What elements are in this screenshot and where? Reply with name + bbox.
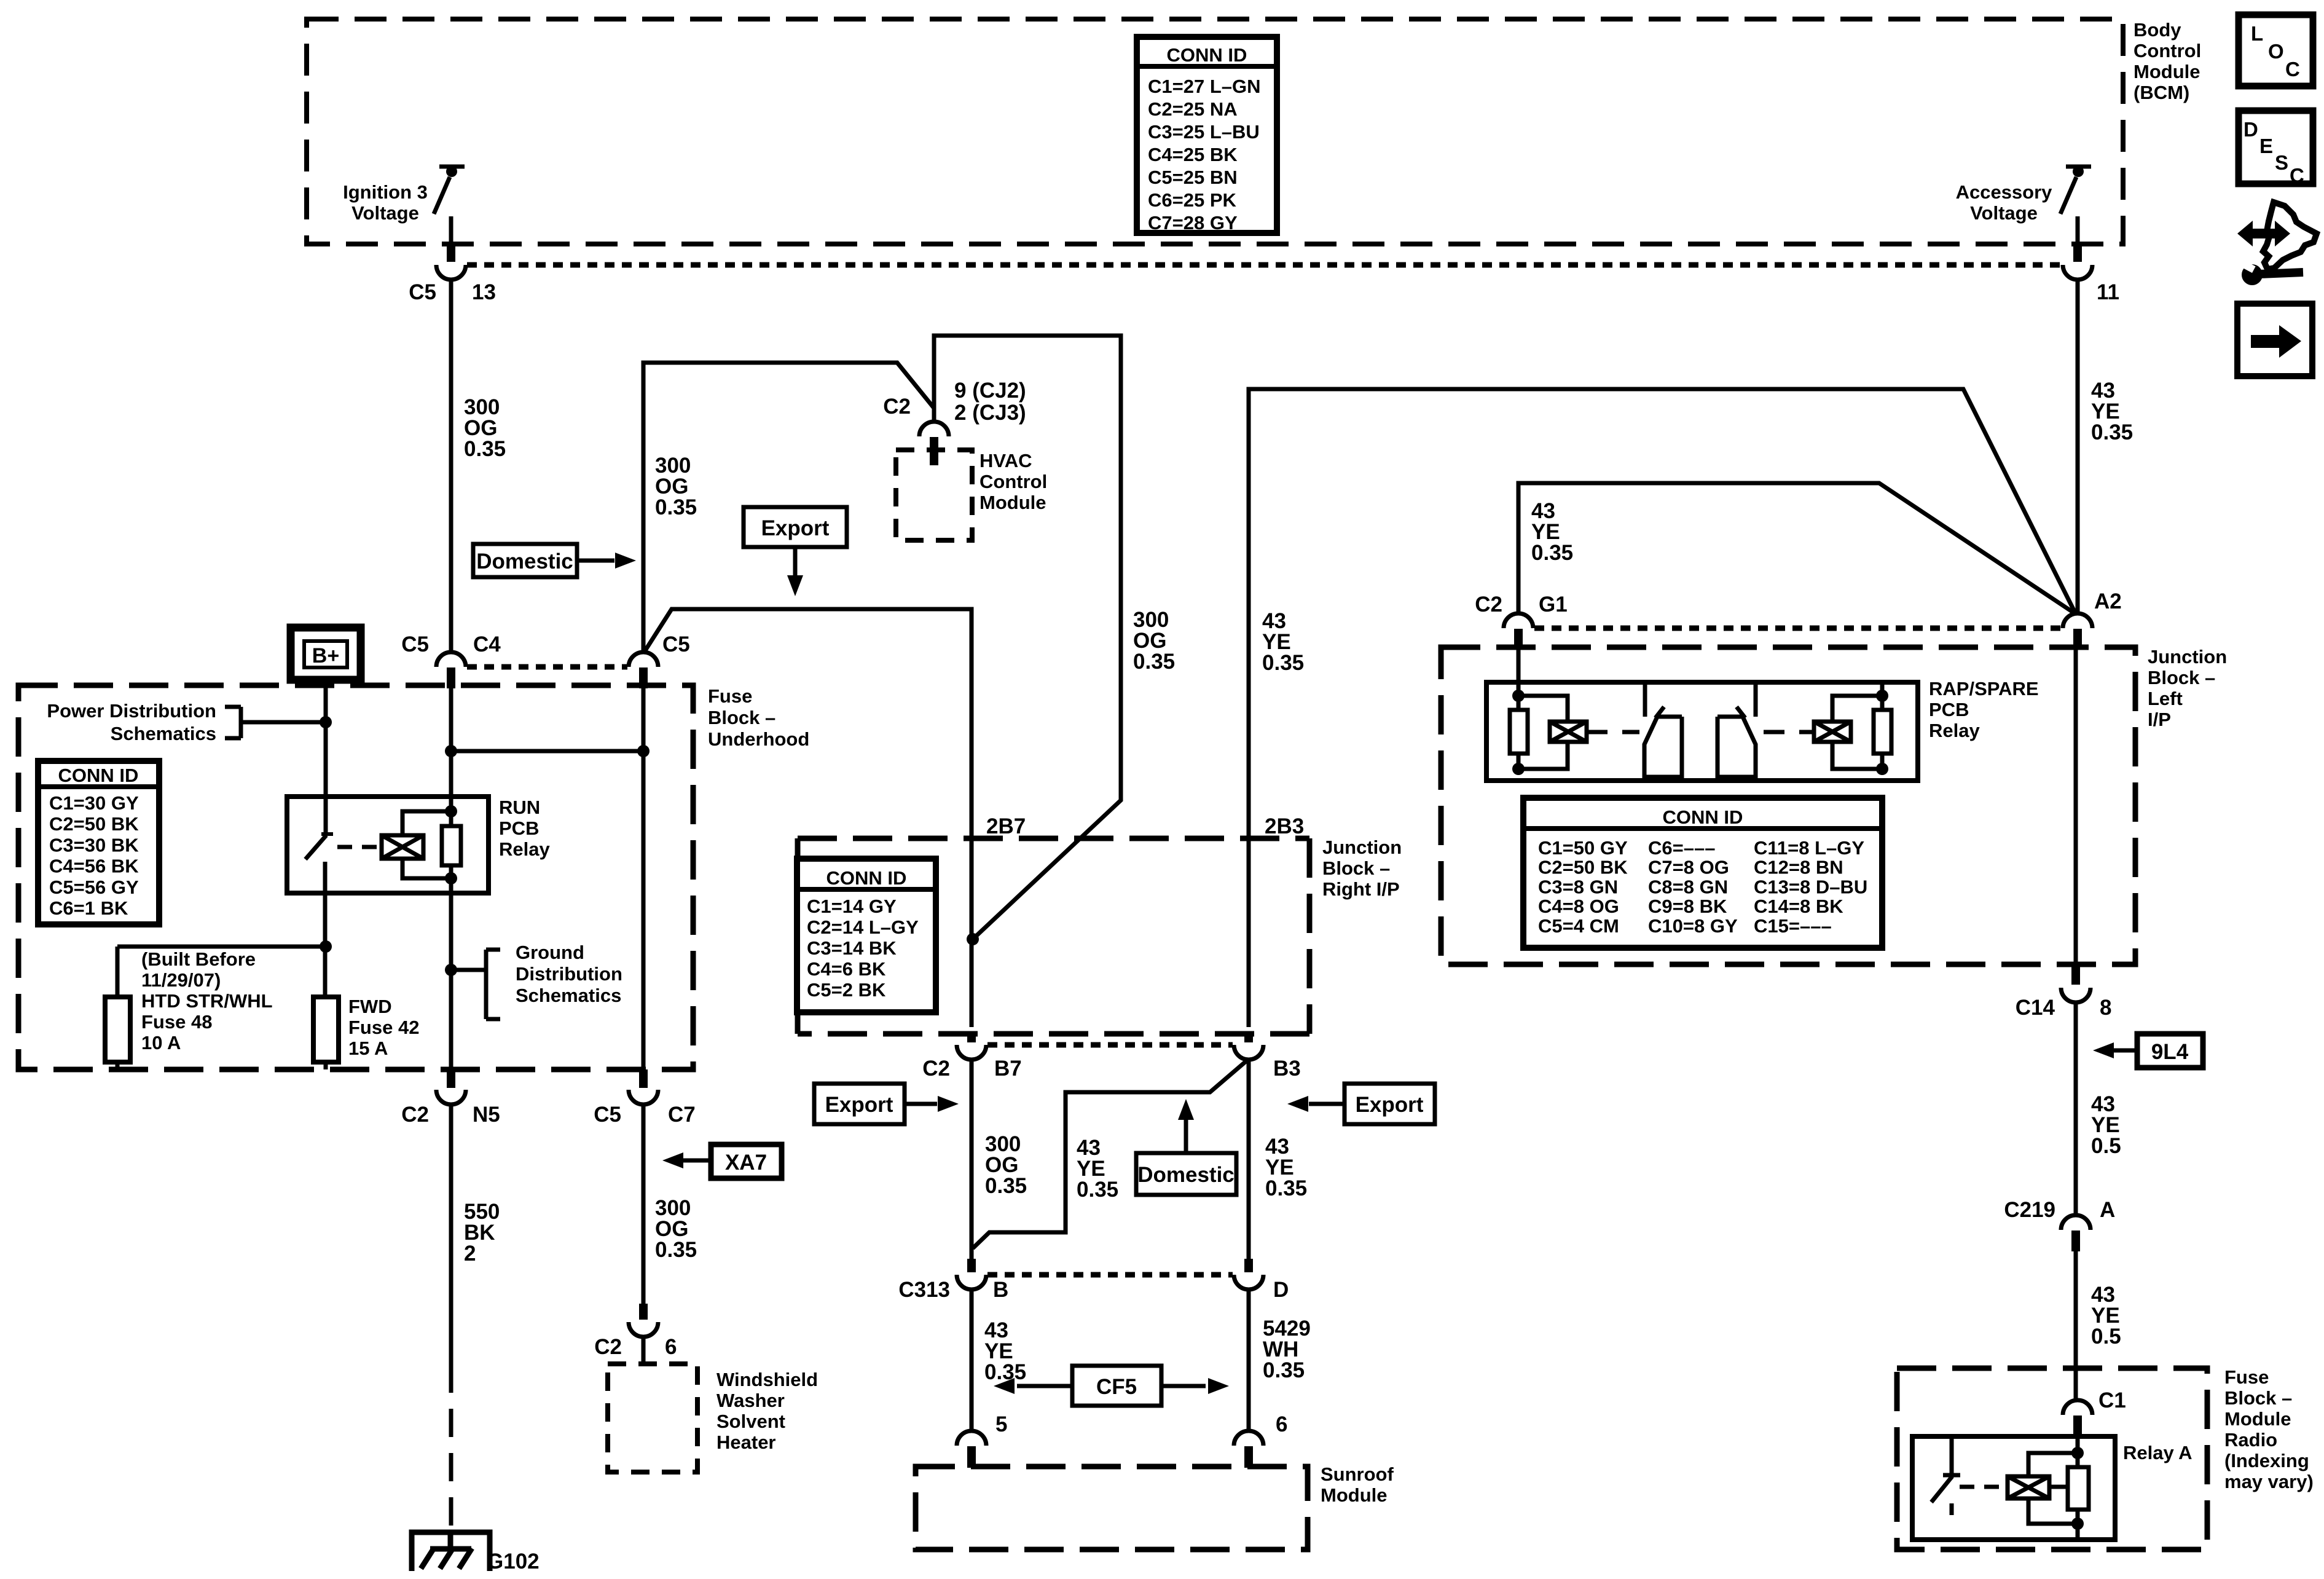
svg-text:Domestic: Domestic [1137, 1163, 1235, 1187]
svg-text:Fuse: Fuse [2224, 1366, 2269, 1388]
svg-text:8: 8 [2100, 996, 2111, 1020]
svg-text:5: 5 [995, 1412, 1007, 1436]
connector C2 (HVAC control module) 9 (CJ2) / 2 (CJ3) [919, 422, 949, 436]
RAP relay left coil [1550, 722, 1587, 742]
box label: B+ [291, 628, 361, 680]
module box: Junction Block - Right I/P (dashed) [798, 836, 1309, 841]
wire: 43 YE 0.5 to fuse block module radio [2074, 1251, 2078, 1401]
arrow box: CF5 (twisted pair) [1072, 1366, 1161, 1406]
RUN relay resistor [442, 826, 461, 865]
junction block right bottom connector row (dotted) [987, 1042, 1233, 1048]
svg-text:0.35: 0.35 [985, 1174, 1027, 1198]
svg-text:XA7: XA7 [725, 1151, 767, 1175]
svg-text:C5: C5 [409, 280, 436, 304]
svg-text:C13=8 D–BU: C13=8 D–BU [1754, 876, 1867, 897]
Relay A resistor [2068, 1467, 2089, 1510]
svg-text:Domestic: Domestic [476, 549, 573, 573]
svg-text:Module: Module [1321, 1484, 1388, 1506]
svg-text:C219: C219 [2004, 1198, 2055, 1222]
svg-text:D: D [1273, 1278, 1289, 1302]
svg-text:2: 2 [464, 1242, 476, 1266]
svg-text:C2=25 NA: C2=25 NA [1148, 98, 1238, 120]
svg-text:C4=8 OG: C4=8 OG [1538, 896, 1619, 917]
svg-text:Heater: Heater [716, 1431, 776, 1453]
junction block left CONN ID table [1523, 798, 1882, 948]
svg-text:C2=14 L–GY: C2=14 L–GY [807, 916, 919, 938]
svg-text:C5=2 BK: C5=2 BK [807, 979, 886, 1001]
svg-text:C6=–––: C6=––– [1648, 837, 1715, 859]
connector pin 5 (sunroof module) [957, 1431, 986, 1446]
svg-text:FWD: FWD [348, 996, 392, 1017]
svg-text:C7: C7 [668, 1103, 696, 1127]
ground symbol G102 [412, 1532, 490, 1571]
wire: relay output to C2-N5 [449, 865, 453, 1069]
svg-text:Sunroof: Sunroof [1321, 1463, 1394, 1485]
arrow: Domestic right [577, 559, 614, 563]
wire: C4 feed through fuse block [449, 688, 453, 826]
svg-text:11/29/07): 11/29/07) [141, 969, 221, 991]
svg-text:N5: N5 [473, 1103, 500, 1127]
svg-text:CONN ID: CONN ID [1167, 44, 1247, 66]
svg-text:Schematics: Schematics [516, 985, 621, 1006]
arrow: Domestic up [1184, 1119, 1188, 1153]
svg-text:0.5: 0.5 [2091, 1134, 2121, 1158]
module box: Fuse Block - Module Radio (dashed) [1897, 1368, 2207, 1549]
relay box: RUN PCB Relay [287, 797, 489, 893]
arrow: 9L4 to wire [2114, 1049, 2137, 1053]
svg-text:C1=30 GY: C1=30 GY [49, 792, 139, 814]
svg-text:C10=8 GY: C10=8 GY [1648, 915, 1738, 937]
svg-text:0.35: 0.35 [1077, 1178, 1118, 1202]
svg-text:Control: Control [979, 471, 1047, 492]
wire: accessory switch to pin 11 [2076, 216, 2080, 246]
RAP relay right contact [1754, 682, 1758, 717]
svg-text:Voltage: Voltage [1970, 202, 2038, 224]
svg-text:Accessory: Accessory [1956, 181, 2053, 203]
svg-text:C11=8 L–GY: C11=8 L–GY [1754, 837, 1864, 859]
svg-text:O: O [2268, 40, 2284, 63]
arrow: CF5 left [1017, 1384, 1072, 1388]
svg-text:CONN ID: CONN ID [1663, 806, 1743, 828]
connector C5 pin 13 (BCM) [447, 246, 455, 262]
RAP relay right resistor [1874, 710, 1891, 754]
svg-text:C9=8 BK: C9=8 BK [1648, 896, 1727, 917]
svg-text:Control: Control [2134, 40, 2201, 61]
wire: B7 continues to C313 B [970, 1059, 974, 1259]
RUN relay switch [321, 832, 333, 836]
svg-text:C6=25 PK: C6=25 PK [1148, 189, 1237, 211]
svg-text:HTD STR/WHL: HTD STR/WHL [141, 990, 273, 1012]
connector C219 pin A [2061, 1215, 2090, 1230]
connector pin 6 (sunroof module) [1234, 1431, 1263, 1446]
svg-text:(Indexing: (Indexing [2224, 1450, 2309, 1471]
svg-text:C4=25 BK: C4=25 BK [1148, 144, 1238, 165]
wire: 43 YE 0.35 to sunroof 5 [970, 1289, 974, 1431]
svg-text:C5=56 GY: C5=56 GY [49, 876, 139, 898]
svg-text:Left: Left [2148, 688, 2183, 709]
svg-text:(Built Before: (Built Before [141, 948, 256, 970]
svg-text:Windshield: Windshield [716, 1369, 818, 1390]
svg-text:C4=56 BK: C4=56 BK [49, 856, 139, 877]
BCM bottom connector row (dotted) [467, 262, 2062, 268]
connector C5 (fuse block, export riser) [629, 652, 658, 667]
wire: 5429 WH 0.35 to sunroof 6 [1247, 1289, 1251, 1431]
arrow box: 9L4 [2137, 1034, 2203, 1068]
svg-text:C6=1 BK: C6=1 BK [49, 897, 128, 919]
svg-text:C4=6 BK: C4=6 BK [807, 958, 886, 980]
box label: Domestic (to riser) [473, 544, 577, 577]
svg-text:Block –: Block – [708, 707, 775, 728]
svg-text:C12=8 BN: C12=8 BN [1754, 857, 1843, 878]
wire: B+ feed down [324, 680, 328, 834]
connector C313 pin B [967, 1259, 976, 1272]
svg-text:Right I/P: Right I/P [1322, 878, 1400, 900]
svg-text:C5: C5 [401, 632, 429, 656]
svg-text:C: C [2285, 58, 2300, 81]
svg-text:C1=27 L–GN: C1=27 L–GN [1148, 76, 1261, 97]
svg-text:C5=25 BN: C5=25 BN [1148, 167, 1238, 188]
svg-text:PCB: PCB [1929, 699, 1969, 720]
svg-text:Block –: Block – [2148, 667, 2215, 688]
wire: branch to HTD STR/WHL fuse [117, 945, 326, 949]
RAP relay left coil loop [1518, 696, 1568, 722]
switch: Accessory Voltage (inside BCM) [2066, 165, 2091, 169]
svg-text:9L4: 9L4 [2151, 1040, 2189, 1064]
junction block right CONN ID table [797, 859, 936, 1012]
connector C2 pin N5 (fuse block bottom) [447, 1069, 455, 1088]
svg-text:9 (CJ2): 9 (CJ2) [954, 379, 1026, 403]
wire: G1 riser and run to A2 [1518, 483, 2076, 614]
junction on B7 wire [967, 933, 979, 945]
wire: ignition switch to C5 pin 13 [449, 216, 453, 246]
C313 connector row (dotted) [987, 1272, 1233, 1278]
svg-text:Radio: Radio [2224, 1429, 2277, 1451]
svg-text:B3: B3 [1273, 1057, 1301, 1081]
module box: Windshield Washer Solvent Heater (dashed) [608, 1364, 697, 1472]
relay box: RAP/SPARE PCB Relay [1486, 682, 1918, 781]
arrow: Export right [905, 1102, 937, 1106]
svg-text:0.5: 0.5 [2091, 1325, 2121, 1349]
connector C2 pin B7 [967, 1034, 976, 1042]
svg-text:10 A: 10 A [141, 1032, 181, 1053]
svg-text:Solvent: Solvent [716, 1411, 785, 1432]
icon: right-arrow box [2237, 304, 2312, 376]
svg-text:Module: Module [2224, 1408, 2291, 1430]
svg-text:11: 11 [2097, 280, 2119, 304]
svg-text:I/P: I/P [2148, 709, 2171, 730]
svg-text:C14=8 BK: C14=8 BK [1754, 896, 1843, 917]
svg-text:C3=14 BK: C3=14 BK [807, 937, 897, 959]
wire: 43 YE 0.35 from pin 11 down to A2 [2076, 279, 2080, 614]
connector C2 pin G1 [1504, 613, 1533, 628]
wire: domestic riser from fuse block C5 up, over to HVAC C2 [643, 363, 934, 653]
svg-text:Junction: Junction [1322, 837, 1402, 858]
svg-text:C4: C4 [473, 632, 501, 656]
wire: dashed segment to G102 [449, 1364, 453, 1535]
svg-text:0.35: 0.35 [1262, 651, 1304, 675]
wire: 43 YE 0.35 2B3 drop and run to A2 [1249, 389, 2076, 1027]
svg-text:C5: C5 [594, 1103, 621, 1127]
svg-text:Export: Export [1356, 1093, 1424, 1117]
svg-text:15 A: 15 A [348, 1038, 388, 1059]
svg-text:G102: G102 [487, 1549, 540, 1573]
arrow box: Export (B3) [1345, 1084, 1435, 1124]
svg-text:C5: C5 [662, 632, 690, 656]
svg-text:Junction: Junction [2148, 646, 2227, 667]
relay box: Relay A [1912, 1436, 2115, 1540]
svg-text:Washer: Washer [716, 1390, 785, 1411]
RAP relay left contact [1643, 682, 1647, 717]
svg-text:C1: C1 [2098, 1388, 2126, 1412]
svg-text:0.35: 0.35 [2091, 420, 2133, 444]
svg-text:Relay A: Relay A [2123, 1442, 2192, 1463]
svg-text:C2=50 BK: C2=50 BK [1538, 857, 1628, 878]
RAP relay right coil loop [1832, 696, 1882, 722]
wire: 300 OG 0.35 from C5-13 down to fuse block C4 [449, 279, 453, 653]
wire: B3 domestic jog to B wire [973, 1059, 1249, 1248]
RUN relay coil loop [402, 811, 451, 835]
wire: 43 YE 0.5 to C219 [2074, 1002, 2078, 1216]
arrow box: XA7 [711, 1144, 782, 1178]
svg-text:Block –: Block – [2224, 1387, 2292, 1409]
svg-text:0.35: 0.35 [1265, 1176, 1307, 1200]
svg-text:CONN ID: CONN ID [58, 765, 139, 786]
svg-text:2B3: 2B3 [1265, 814, 1304, 838]
svg-text:may vary): may vary) [2224, 1471, 2314, 1492]
svg-text:A: A [2100, 1198, 2115, 1222]
svg-text:Block –: Block – [1322, 857, 1390, 879]
icon: DESC box [2239, 111, 2313, 184]
connector C5/C4 (fuse block) [436, 652, 466, 667]
svg-text:6: 6 [665, 1335, 677, 1359]
svg-text:B+: B+ [312, 644, 339, 667]
connector pin B3 [1244, 1034, 1253, 1042]
arrow: Export left [1309, 1102, 1345, 1106]
svg-text:C3=8 GN: C3=8 GN [1538, 876, 1618, 897]
svg-text:CF5: CF5 [1096, 1375, 1137, 1399]
svg-text:Fuse 42: Fuse 42 [348, 1017, 419, 1038]
svg-text:Underhood: Underhood [708, 728, 809, 750]
connector pin 11 (BCM) [2073, 246, 2082, 262]
fuse: FWD Fuse 42 15 A [313, 997, 339, 1062]
svg-text:C7=28 GY: C7=28 GY [1148, 212, 1238, 234]
svg-text:Schematics: Schematics [111, 723, 216, 744]
svg-text:C2: C2 [883, 395, 911, 419]
svg-text:Module: Module [979, 492, 1046, 513]
svg-text:C5=4 CM: C5=4 CM [1538, 915, 1619, 937]
svg-text:G1: G1 [1539, 593, 1568, 616]
svg-text:B7: B7 [994, 1057, 1022, 1081]
svg-text:L: L [2251, 22, 2263, 45]
svg-text:0.35: 0.35 [1133, 650, 1175, 674]
svg-text:C1=14 GY: C1=14 GY [807, 896, 897, 917]
svg-text:0.35: 0.35 [655, 495, 697, 519]
fuse block CONN ID table [38, 761, 159, 924]
wire: B3 continues to C313 D [1247, 1059, 1251, 1259]
connector C14 pin 8 [2071, 964, 2080, 985]
Relay A coil [2008, 1476, 2049, 1498]
svg-text:Power Distribution: Power Distribution [47, 700, 216, 722]
svg-text:HVAC: HVAC [979, 450, 1032, 471]
svg-text:C1=50 GY: C1=50 GY [1538, 837, 1628, 859]
svg-text:Relay: Relay [499, 838, 550, 860]
svg-text:C15=–––: C15=––– [1754, 915, 1832, 937]
wire: 300 OG 0.35 down to washer heater connector [642, 1104, 646, 1304]
fuse block top connector row (dotted) [467, 664, 627, 670]
svg-text:2 (CJ3): 2 (CJ3) [954, 401, 1026, 425]
svg-text:A2: A2 [2094, 589, 2122, 613]
module box: Sunroof Module (dashed) [916, 1467, 1308, 1549]
svg-text:Relay: Relay [1929, 720, 1980, 741]
fuse: HTD STR/WHL Fuse 48 10 A [105, 997, 130, 1062]
svg-text:Distribution: Distribution [516, 963, 622, 985]
svg-text:Ignition 3: Ignition 3 [343, 181, 428, 203]
svg-text:C8=8 GN: C8=8 GN [1648, 876, 1728, 897]
svg-text:C: C [2290, 164, 2304, 187]
svg-text:PCB: PCB [499, 817, 539, 839]
arrow: Export down [793, 547, 798, 577]
junction block left top connector row (dotted) [1534, 626, 2062, 631]
RUN relay coil [382, 835, 423, 859]
svg-text:Module: Module [2134, 61, 2200, 82]
svg-text:RAP/SPARE: RAP/SPARE [1929, 678, 2039, 699]
svg-text:2B7: 2B7 [986, 814, 1026, 838]
arrow box: Export (B7) [814, 1084, 905, 1124]
svg-text:C2=50 BK: C2=50 BK [49, 813, 139, 835]
Relay A switch [1950, 1436, 1954, 1475]
module box: Junction Block - Left I/P (dashed) [1441, 647, 2135, 964]
svg-text:Ground: Ground [516, 942, 584, 963]
svg-text:Voltage: Voltage [351, 202, 419, 224]
connector pin A2 [2063, 613, 2092, 628]
BCM CONN ID table [1137, 37, 1277, 233]
connector C313 pin D [1244, 1259, 1253, 1272]
arrow: CF5 right [1161, 1384, 1206, 1388]
svg-text:0.35: 0.35 [984, 1360, 1026, 1384]
svg-text:0.35: 0.35 [655, 1238, 697, 1262]
icon: LOC box [2239, 15, 2313, 86]
svg-text:B: B [993, 1278, 1008, 1302]
junction horizontal between C4 and C5 feeds [451, 749, 643, 754]
svg-text:(BCM): (BCM) [2134, 82, 2189, 103]
svg-text:Fuse: Fuse [708, 685, 752, 707]
svg-text:C3=30 BK: C3=30 BK [49, 834, 139, 856]
svg-text:E: E [2259, 135, 2273, 157]
svg-text:Fuse 48: Fuse 48 [141, 1011, 212, 1033]
svg-text:C3=25 L–BU: C3=25 L–BU [1148, 121, 1260, 143]
wire: C5 riser through fuse block [642, 688, 646, 1069]
connector C2 pin 6 (washer heater) [639, 1304, 648, 1320]
RAP relay control dashed link [1587, 730, 1639, 734]
module box: Body Control Module (BCM), dashed outline [307, 19, 2123, 244]
svg-text:C7=8 OG: C7=8 OG [1648, 857, 1729, 878]
svg-text:0.35: 0.35 [1263, 1358, 1305, 1382]
svg-text:Body: Body [2134, 19, 2181, 41]
Relay A control dashed link [1960, 1485, 2003, 1489]
box label: Export (to HVAC path) [744, 507, 847, 547]
wire: A2 through junction block to C14 [2074, 649, 2078, 964]
svg-text:C2: C2 [594, 1335, 622, 1359]
svg-text:0.35: 0.35 [464, 437, 506, 461]
box label: Domestic (sunroof feed) [1136, 1153, 1236, 1195]
svg-text:C2: C2 [922, 1057, 950, 1081]
bracket: Ground Distribution Schematics [486, 948, 500, 952]
bracket: Power Distribution Schematics [225, 705, 241, 709]
svg-text:0.35: 0.35 [1531, 541, 1573, 565]
svg-text:6: 6 [1276, 1412, 1287, 1436]
svg-text:C2: C2 [401, 1103, 429, 1127]
svg-text:CONN ID: CONN ID [826, 867, 907, 889]
RAP relay left resistor [1510, 710, 1528, 754]
wire: HVAC C2 riser and corner to 2B7 drop [934, 336, 1121, 939]
svg-text:RUN: RUN [499, 797, 540, 818]
RAP relay right coil [1814, 722, 1851, 742]
svg-text:S: S [2275, 151, 2288, 174]
svg-text:13: 13 [472, 280, 496, 304]
Relay A coil loop [2028, 1453, 2078, 1476]
wire: G1 into relay [1517, 649, 1521, 710]
svg-text:Export: Export [761, 516, 830, 540]
svg-text:Export: Export [825, 1093, 893, 1117]
arrow: XA7 to wire [683, 1159, 711, 1163]
connector C5 pin C7 (fuse block bottom) [639, 1069, 648, 1088]
icon: schematic double-arrow with outline and wrench [2237, 221, 2290, 246]
wire: 550 BK 2 to ground [449, 1104, 453, 1364]
module box: HVAC Control Module (dashed) [896, 450, 972, 540]
wire: export line from C5 dome to B7 drop [643, 609, 972, 1027]
connector C1 (radio fuse block) [2063, 1400, 2092, 1415]
svg-text:C313: C313 [898, 1278, 950, 1302]
svg-text:C2: C2 [1475, 593, 1502, 616]
svg-text:D: D [2244, 118, 2258, 141]
svg-text:C14: C14 [2016, 996, 2055, 1020]
RUN relay control dashed link [337, 845, 380, 849]
switch: Ignition 3 Voltage (inside BCM) [439, 165, 465, 169]
module box: Fuse Block - Underhood (dashed) [18, 685, 693, 1069]
